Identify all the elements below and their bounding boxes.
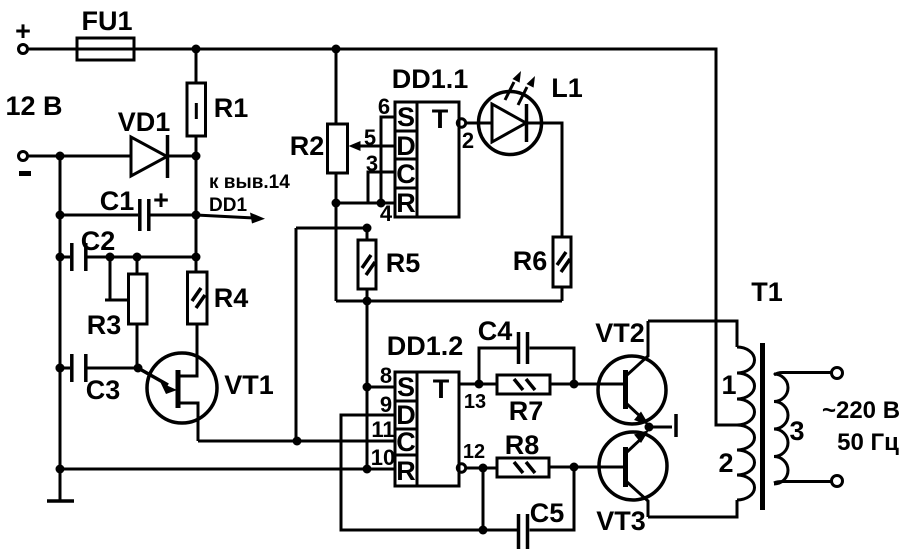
svg-text:6: 6 xyxy=(378,94,390,119)
svg-text:9: 9 xyxy=(380,392,392,417)
svg-text:C2: C2 xyxy=(81,226,116,256)
capacitor C3 xyxy=(60,354,138,405)
node R3 wiper xyxy=(106,253,115,262)
pin 10 xyxy=(371,445,395,470)
label 12 V xyxy=(5,91,62,121)
svg-text:11: 11 xyxy=(371,417,394,442)
diode VD1 xyxy=(118,107,196,178)
transformer T1 winding 2 xyxy=(718,425,754,500)
wire secondary bottom lead xyxy=(774,482,832,484)
svg-text:FU1: FU1 xyxy=(81,6,132,36)
node R2 pin4 xyxy=(332,199,341,208)
terminal + input xyxy=(15,16,31,54)
svg-text:1: 1 xyxy=(721,370,736,400)
svg-text:DD1.1: DD1.1 xyxy=(392,64,469,94)
transistor VT1 xyxy=(138,324,274,441)
wire pin11 line xyxy=(198,440,395,443)
svg-text:3: 3 xyxy=(789,416,804,446)
node rail pin10 xyxy=(56,465,65,474)
capacitor C5 xyxy=(483,467,574,549)
svg-text:VD1: VD1 xyxy=(118,107,171,137)
pin 8 xyxy=(380,363,392,388)
wire node column to pin11 xyxy=(295,228,298,441)
svg-text:S: S xyxy=(397,102,415,132)
svg-text:D: D xyxy=(396,400,416,430)
transistor VT3 xyxy=(596,430,667,536)
resistor R7 xyxy=(497,375,598,426)
wire arrow to pin 14 DD1 xyxy=(196,172,290,224)
svg-text:R5: R5 xyxy=(386,248,421,278)
svg-text:C4: C4 xyxy=(478,316,513,346)
svg-text:D: D xyxy=(396,131,416,161)
svg-text:C3: C3 xyxy=(86,375,121,405)
flip-flop DD1.1 xyxy=(392,64,469,218)
terminal output bottom xyxy=(832,476,843,487)
svg-text:50 Гц: 50 Гц xyxy=(837,429,899,456)
svg-text:R2: R2 xyxy=(290,131,325,161)
svg-text:к выв.14: к выв.14 xyxy=(209,172,290,193)
svg-text:4: 4 xyxy=(380,201,393,226)
potentiometer R2 xyxy=(290,49,395,301)
node minus rail top xyxy=(56,152,65,161)
resistor R8 xyxy=(497,430,600,477)
pin 2 output circle xyxy=(457,119,492,153)
svg-text:R6: R6 xyxy=(513,246,548,276)
resistor R4 xyxy=(188,272,249,324)
label output voltage xyxy=(822,397,900,456)
wire pin4 line xyxy=(336,202,395,205)
pin 6 xyxy=(378,94,390,119)
node R5 bottom xyxy=(363,297,372,306)
svg-text:R1: R1 xyxy=(214,93,249,123)
svg-text:R7: R7 xyxy=(509,396,544,426)
ground xyxy=(47,499,74,503)
node C2 left xyxy=(56,253,65,262)
svg-text:5: 5 xyxy=(364,125,376,150)
wire pin3 link xyxy=(368,172,395,203)
wire minus lead xyxy=(28,155,131,158)
pin 13 xyxy=(459,384,497,413)
node VD1-R1 xyxy=(192,152,201,161)
svg-text:VT2: VT2 xyxy=(595,318,645,348)
svg-text:13: 13 xyxy=(464,391,486,413)
svg-text:+: + xyxy=(153,185,169,215)
wire bottom rail R2-R6 xyxy=(336,300,562,303)
svg-text:C1: C1 xyxy=(100,186,135,216)
node C1 minus rail xyxy=(56,364,65,373)
wire pin6 link xyxy=(381,117,395,203)
transistor VT2 xyxy=(595,318,666,425)
svg-text:DD1.2: DD1.2 xyxy=(387,331,464,361)
svg-text:T: T xyxy=(433,374,450,404)
pin 3 xyxy=(366,151,378,176)
node pin13 xyxy=(475,380,484,389)
resistor R6 xyxy=(513,237,571,301)
svg-text:T1: T1 xyxy=(751,277,783,307)
svg-text:VT1: VT1 xyxy=(224,370,274,400)
wire center column R1 to R4 xyxy=(195,156,198,272)
svg-text:R8: R8 xyxy=(505,430,540,460)
svg-text:S: S xyxy=(397,372,415,402)
svg-text:3: 3 xyxy=(366,151,378,176)
svg-text:12 В: 12 В xyxy=(5,91,62,121)
wire pin10 line xyxy=(60,468,395,471)
svg-text:VT3: VT3 xyxy=(596,506,646,536)
node top-R1 xyxy=(192,45,201,54)
fuse FU1 xyxy=(77,6,134,60)
pin 5 xyxy=(364,125,376,150)
pin 4 xyxy=(380,201,393,226)
resistor R3 xyxy=(87,257,147,368)
svg-text:R: R xyxy=(396,456,416,486)
svg-text:8: 8 xyxy=(380,363,392,388)
wire left rail xyxy=(59,156,62,501)
pin 11 xyxy=(371,417,394,442)
capacitor C4 xyxy=(478,316,574,384)
node pin6-pin4 xyxy=(377,199,386,208)
transformer T1 core xyxy=(751,277,783,510)
node C2 right xyxy=(192,253,201,262)
svg-text:R: R xyxy=(396,188,416,218)
wire top rail from + terminal to T1 center tap xyxy=(28,49,737,425)
svg-text:10: 10 xyxy=(371,445,395,470)
svg-text:2: 2 xyxy=(718,448,733,478)
wire VT3 collector to T1 xyxy=(648,500,737,517)
wire L1 to R6 xyxy=(527,123,563,237)
pin 12 output circle xyxy=(457,441,497,472)
svg-text:L1: L1 xyxy=(551,73,583,103)
capacitor C2 xyxy=(60,226,196,271)
node R8 right xyxy=(570,463,579,472)
node C1 left xyxy=(56,211,65,220)
node C3 left xyxy=(56,364,65,373)
wire pin8 line xyxy=(367,386,395,389)
pin 9 xyxy=(380,392,392,417)
terminal output top xyxy=(832,368,843,379)
node R3 top xyxy=(133,253,142,262)
wire R3 wiper tap xyxy=(105,257,129,300)
node C5 left xyxy=(479,526,488,535)
wire secondary top lead xyxy=(774,373,832,376)
node pin11 junction xyxy=(293,437,302,446)
terminal - input xyxy=(19,152,32,177)
flip-flop DD1.2 xyxy=(387,331,464,486)
svg-text:+: + xyxy=(15,16,31,46)
svg-text:C5: C5 xyxy=(530,498,565,528)
node pin8 xyxy=(363,383,372,392)
node R5 top xyxy=(363,224,372,233)
resistor R5 xyxy=(358,240,420,301)
svg-text:T: T xyxy=(432,104,449,134)
svg-text:C: C xyxy=(396,427,416,457)
wire pin9 feedback xyxy=(341,415,517,530)
svg-text:~220 В: ~220 В xyxy=(822,397,900,424)
LED L1 xyxy=(479,71,583,155)
capacitor C1 xyxy=(60,185,196,231)
node top-R2 xyxy=(332,45,341,54)
node emitter junction xyxy=(645,414,677,437)
transformer T1 winding 1 xyxy=(721,347,754,425)
transformer T1 winding 3 xyxy=(774,374,805,484)
wire VT2 collector to T1 xyxy=(648,321,737,347)
svg-text:R3: R3 xyxy=(87,310,122,340)
wire R5 bottom to pins 8 10 xyxy=(366,301,369,469)
svg-text:DD1: DD1 xyxy=(209,195,247,216)
svg-text:2: 2 xyxy=(462,128,474,153)
wire R5 top link xyxy=(296,228,367,240)
svg-text:C: C xyxy=(396,159,416,189)
svg-text:R4: R4 xyxy=(214,283,249,313)
node pin12 xyxy=(479,464,488,473)
node R7 right xyxy=(570,380,579,389)
svg-text:12: 12 xyxy=(463,441,485,463)
resistor R1 xyxy=(187,49,248,156)
node pin10 xyxy=(363,465,372,474)
node C3-R3-VT1 xyxy=(134,364,143,373)
node C1 right xyxy=(192,211,201,220)
